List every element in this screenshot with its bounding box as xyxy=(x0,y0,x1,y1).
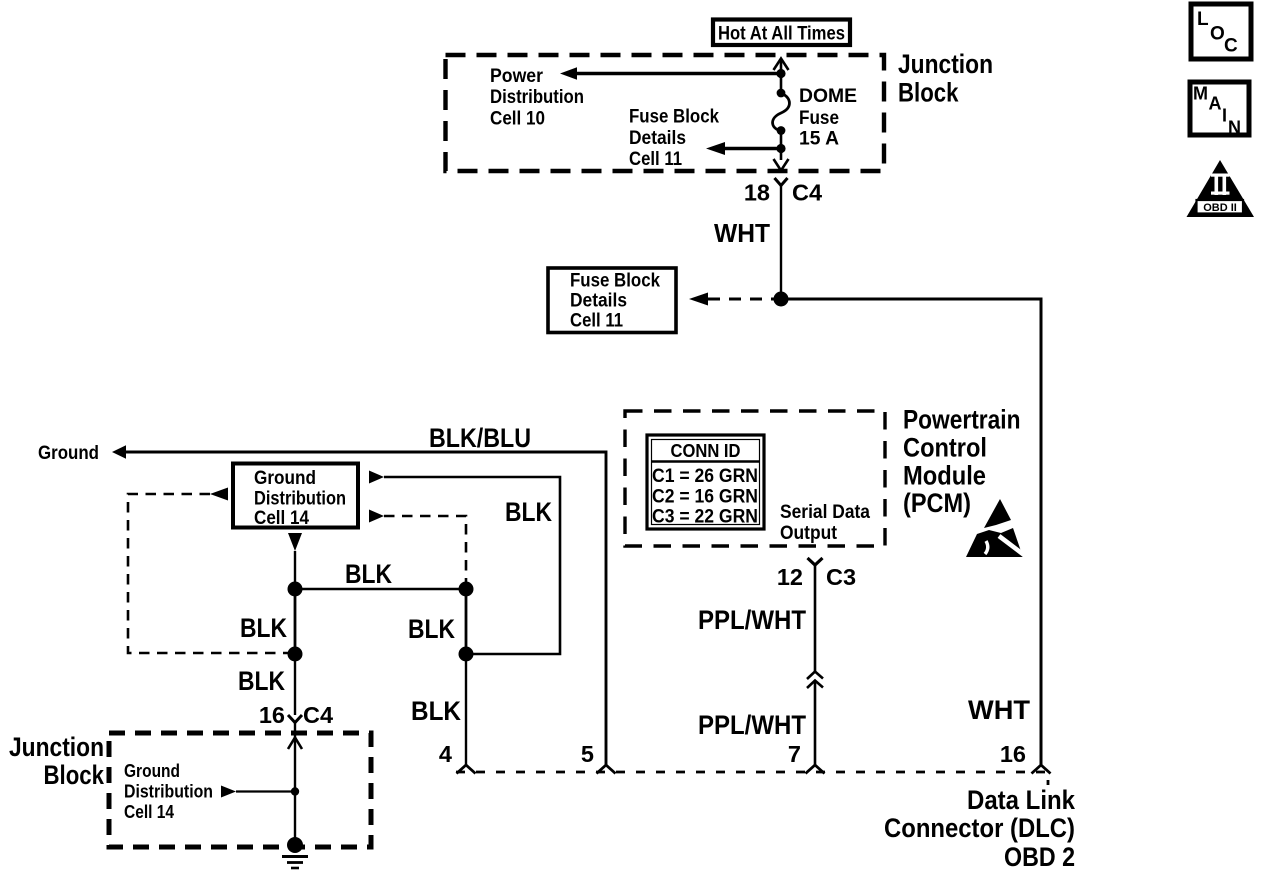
svg-text:18: 18 xyxy=(744,180,770,206)
svg-text:BLK: BLK xyxy=(345,559,392,589)
arrow down from Ground Distribution box xyxy=(288,533,302,551)
svg-text:WHT: WHT xyxy=(968,695,1031,725)
svg-text:Ground: Ground xyxy=(254,468,316,489)
wire to Power Distribution (arrow left) xyxy=(560,67,781,80)
svg-text:DOME: DOME xyxy=(799,85,857,107)
CONN ID table xyxy=(647,435,764,529)
svg-text:Powertrain: Powertrain xyxy=(903,405,1021,435)
node splice 4 xyxy=(459,647,474,662)
svg-text:Cell 11: Cell 11 xyxy=(570,310,623,332)
node at Fuse Block Details tap xyxy=(776,144,785,153)
Serial Data Output pin label xyxy=(780,501,870,544)
svg-text:PPL/WHT: PPL/WHT xyxy=(698,710,806,740)
junction block (bottom) dashed box xyxy=(109,733,371,847)
ground symbol xyxy=(282,837,308,868)
DLC pin 5 connector symbol xyxy=(597,765,616,774)
icon MAIN xyxy=(1190,82,1249,138)
svg-text:Cell 11: Cell 11 xyxy=(629,148,682,170)
svg-text:WHT: WHT xyxy=(714,218,770,248)
svg-text:Fuse Block: Fuse Block xyxy=(570,270,660,292)
connector C4 pin 16 symbol xyxy=(288,715,302,723)
svg-text:C4: C4 xyxy=(303,702,333,728)
Data Link Connector dashed edge xyxy=(456,772,1048,785)
wire PPL/WHT from C3 pin 12 xyxy=(814,565,817,766)
wire BLK/BLU to Ground (arrow left) xyxy=(112,445,606,766)
node splice 3 xyxy=(288,647,303,662)
Ground Distribution Cell 14 reference text (bottom) xyxy=(124,761,213,822)
svg-text:Block: Block xyxy=(44,760,105,790)
Fuse Block Details Cell 11 reference text (top) xyxy=(629,106,719,171)
svg-text:N: N xyxy=(1228,118,1241,138)
dashed wire to Fuse Block Details box (arrow left) xyxy=(689,293,774,306)
junction block (top) dashed box xyxy=(446,55,885,171)
svg-text:L: L xyxy=(1197,9,1209,30)
icon LOC xyxy=(1191,4,1251,59)
node at ground wire tap xyxy=(291,787,299,795)
node at Power Distribution tap xyxy=(776,69,785,78)
wire below Ground Distribution box xyxy=(294,551,296,589)
svg-text:Junction: Junction xyxy=(9,732,104,762)
in-line connector on PPL/WHT wire xyxy=(807,672,823,689)
svg-text:4: 4 xyxy=(439,741,452,767)
svg-text:BLK: BLK xyxy=(411,696,461,726)
svg-text:Block: Block xyxy=(898,78,959,108)
fuse DOME 15 A label xyxy=(799,85,857,150)
fuse DOME 15 A symbol xyxy=(773,89,790,135)
svg-text:Distribution: Distribution xyxy=(124,782,213,802)
svg-text:12: 12 xyxy=(777,564,803,590)
node splice 2 xyxy=(459,582,474,597)
svg-text:O: O xyxy=(1210,24,1225,45)
wire to Fuse Block Details (arrow left) xyxy=(706,142,781,155)
svg-text:Fuse: Fuse xyxy=(799,107,839,129)
svg-text:BLK/BLU: BLK/BLU xyxy=(429,423,531,453)
Power Distribution Cell 10 reference text xyxy=(490,65,584,130)
svg-text:7: 7 xyxy=(788,741,801,767)
svg-text:Distribution: Distribution xyxy=(490,86,584,108)
svg-text:5: 5 xyxy=(581,741,594,767)
svg-text:Serial Data: Serial Data xyxy=(780,501,870,523)
svg-text:Fuse Block: Fuse Block xyxy=(629,106,719,128)
svg-text:16: 16 xyxy=(1000,741,1026,767)
node WHT splice xyxy=(774,292,789,307)
svg-text:16: 16 xyxy=(259,702,285,728)
svg-text:C2 = 16 GRN: C2 = 16 GRN xyxy=(652,487,758,508)
DLC pin 16 connector symbol xyxy=(1032,765,1051,774)
svg-text:(PCM): (PCM) xyxy=(903,488,971,518)
svg-text:OBD II: OBD II xyxy=(1203,202,1237,214)
svg-text:Connector (DLC): Connector (DLC) xyxy=(884,813,1075,843)
DLC pin 4 connector symbol xyxy=(457,765,476,774)
svg-text:Details: Details xyxy=(570,290,627,312)
svg-text:OBD 2: OBD 2 xyxy=(1004,842,1075,872)
Fuse Block Details Cell 11 box (middle) xyxy=(548,268,676,333)
svg-text:Details: Details xyxy=(629,127,686,149)
svg-text:Hot At All Times: Hot At All Times xyxy=(718,24,845,45)
svg-text:C1 = 26 GRN: C1 = 26 GRN xyxy=(652,466,758,487)
svg-text:C4: C4 xyxy=(792,180,822,206)
svg-text:C: C xyxy=(1224,36,1238,57)
svg-text:Module: Module xyxy=(903,461,986,491)
DLC pin 7 connector symbol xyxy=(806,765,825,774)
svg-text:Cell 14: Cell 14 xyxy=(124,802,174,822)
svg-text:Power: Power xyxy=(490,65,543,87)
Data Link Connector (DLC) OBD 2 label xyxy=(884,785,1076,872)
wire splice4 down to DLC pin 4 xyxy=(465,654,467,766)
svg-text:Data Link: Data Link xyxy=(967,785,1076,815)
wire between splice 1 and 2 xyxy=(295,588,466,590)
svg-text:BLK: BLK xyxy=(408,614,455,644)
dashed stub wire left of Ground Distribution box (arrow left) xyxy=(128,488,290,654)
svg-text:C3: C3 xyxy=(826,564,856,590)
wire below fuse xyxy=(780,130,783,160)
Powertrain Control Module (PCM) label xyxy=(903,405,1021,519)
connector C4 pin 18 symbol xyxy=(775,178,788,186)
wire splice3 down to C4 xyxy=(294,654,296,715)
connector C3 pin 12 symbol xyxy=(808,558,823,565)
svg-text:Ground: Ground xyxy=(124,761,180,781)
svg-text:I: I xyxy=(1222,106,1227,126)
svg-text:A: A xyxy=(1209,94,1222,114)
svg-text:CONN ID: CONN ID xyxy=(671,440,741,461)
svg-text:Ground: Ground xyxy=(38,442,99,464)
junction block (bottom) label xyxy=(9,732,105,790)
wire entering junction block from Hot At All Times (up arrow) xyxy=(774,59,789,94)
ESD sensitive device icon xyxy=(966,499,1028,558)
wire splice1 down xyxy=(294,589,297,654)
icon OBD II xyxy=(1187,160,1255,217)
Hot At All Times box xyxy=(713,20,850,46)
svg-text:BLK: BLK xyxy=(240,613,287,643)
svg-text:Junction: Junction xyxy=(898,49,993,79)
svg-text:Cell 14: Cell 14 xyxy=(254,508,309,529)
dashed wire from Ground Distribution box lower right (arrow right) xyxy=(369,510,466,583)
svg-text:Cell 10: Cell 10 xyxy=(490,108,545,130)
PCM dashed box xyxy=(625,411,885,546)
node splice 1 xyxy=(288,582,303,597)
wire splice2 down xyxy=(465,589,468,654)
svg-text:BLK: BLK xyxy=(505,497,552,527)
solid wire from Ground Distribution box upper right (arrow right) xyxy=(369,471,560,655)
svg-text:Control: Control xyxy=(903,433,987,463)
svg-text:BLK: BLK xyxy=(238,666,285,696)
svg-text:15 A: 15 A xyxy=(799,128,839,150)
wire to Ground Distribution reference (arrow right) xyxy=(221,786,295,798)
svg-text:PPL/WHT: PPL/WHT xyxy=(698,605,806,635)
svg-text:C3 = 22 GRN: C3 = 22 GRN xyxy=(652,507,758,528)
Ground Distribution Cell 14 box (middle) xyxy=(233,464,358,530)
wire WHT from C4 pin 18 xyxy=(780,186,782,300)
wire into junction block (bottom) xyxy=(294,723,296,846)
wire leaving junction block (down arrow) xyxy=(774,159,789,171)
wire WHT to DLC pin 16 xyxy=(781,299,1041,766)
arrow up entering junction block xyxy=(288,738,302,750)
svg-text:M: M xyxy=(1193,84,1208,104)
svg-text:Output: Output xyxy=(780,522,837,544)
svg-text:Distribution: Distribution xyxy=(254,489,346,510)
